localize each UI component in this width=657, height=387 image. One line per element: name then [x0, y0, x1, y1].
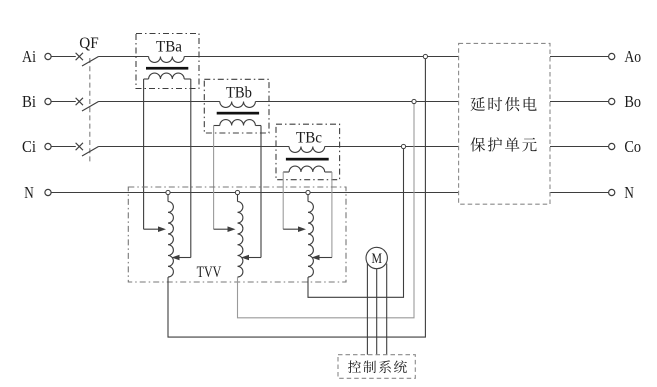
breaker QF pole 3 — [76, 143, 99, 156]
node: TVV winding 2 top junction on N — [235, 190, 239, 194]
tap arrow right into TVV winding 1 — [180, 257, 191, 259]
wire: phase C input bus — [51, 146, 76, 148]
protection unit label line 1 — [471, 97, 485, 111]
transformer TBb box — [204, 79, 269, 133]
terminal Co (output) — [609, 143, 615, 149]
transformer TBb primary winding — [220, 102, 256, 108]
svg-text:Ai: Ai — [22, 47, 36, 66]
node: junction on phase bus — [401, 144, 405, 148]
terminal Ao (output) — [609, 53, 615, 59]
svg-text:N: N — [24, 183, 34, 202]
svg-text:M: M — [371, 251, 382, 267]
node: junction on phase bus — [423, 54, 427, 58]
inductor TVV winding 2 — [237, 195, 239, 202]
inductor TVV winding 3 — [307, 195, 309, 202]
tap arrow left into TVV winding 1 — [144, 228, 160, 230]
node: junction on phase bus — [412, 99, 416, 103]
terminal N (input) — [45, 189, 51, 195]
protection unit label line 2 — [470, 137, 485, 151]
wire: TBb secondary left lead — [213, 126, 215, 230]
svg-text:TBb: TBb — [226, 85, 252, 102]
svg-text:Ci: Ci — [22, 137, 36, 156]
svg-text:QF: QF — [79, 35, 98, 52]
wire: phase B input bus — [51, 101, 76, 103]
node: TVV winding 3 top junction on N — [306, 190, 310, 194]
transformer TBa core — [146, 67, 188, 70]
node: TVV winding 1 top junction on N — [166, 190, 170, 194]
control system label — [348, 360, 361, 373]
tap arrow right into TVV winding 3 — [320, 257, 332, 259]
wire: TVV winding 2 bottom return loop — [238, 102, 415, 318]
wire: TVV winding 3 bottom return loop — [308, 147, 404, 298]
transformer TBc box — [276, 124, 340, 180]
regulator TVV box — [128, 187, 346, 282]
wire: TBc secondary left lead — [282, 172, 284, 229]
svg-text:TBc: TBc — [296, 130, 322, 147]
tap arrow left into TVV winding 3 — [283, 228, 300, 230]
breaker QF pole 1 — [76, 53, 99, 66]
svg-text:TVV: TVV — [197, 264, 222, 281]
terminal Ai (input) — [45, 53, 51, 59]
wire: TVV winding 1 bottom return loop — [168, 57, 425, 338]
wire: TBa secondary right lead — [190, 79, 192, 258]
wire: TBc secondary right lead — [331, 172, 333, 258]
transformer TBb core — [217, 112, 259, 115]
wire: motor leads to control box — [367, 264, 386, 355]
terminal N (output) — [609, 189, 615, 195]
transformer TBc secondary winding — [289, 166, 325, 172]
terminal Bo (output) — [609, 98, 615, 104]
transformer TBc primary winding — [289, 147, 325, 153]
transformer TBa box — [136, 34, 199, 89]
svg-text:Co: Co — [624, 137, 641, 156]
transformer TBb secondary winding — [220, 120, 256, 126]
control system box — [338, 355, 415, 379]
transformer TBa primary winding — [149, 57, 185, 63]
svg-text:TBa: TBa — [156, 39, 182, 56]
svg-text:Bo: Bo — [624, 92, 641, 111]
wire: TBb secondary right lead — [260, 126, 262, 258]
wire: neutral N bus — [51, 192, 458, 194]
delay-supply protection unit box — [459, 43, 550, 204]
motor M — [366, 247, 387, 268]
terminal Bi (input) — [45, 98, 51, 104]
breaker QF pole 2 — [76, 98, 99, 111]
wire: TBa secondary left lead — [143, 79, 145, 229]
terminal Ci (input) — [45, 143, 51, 149]
transformer TBa secondary winding — [149, 73, 185, 79]
inductor TVV winding 1 — [167, 195, 169, 202]
svg-text:Ao: Ao — [624, 47, 641, 66]
wire: phase A input bus — [51, 57, 608, 193]
svg-text:N: N — [624, 183, 634, 202]
wire: output stubs to terminals — [550, 56, 609, 58]
transformer TBc core — [286, 158, 329, 161]
tap arrow right into TVV winding 2 — [249, 257, 261, 259]
svg-text:Bi: Bi — [22, 92, 36, 111]
tap arrow left into TVV winding 2 — [214, 228, 230, 230]
breaker QF linkage (dashed) — [89, 58, 91, 163]
